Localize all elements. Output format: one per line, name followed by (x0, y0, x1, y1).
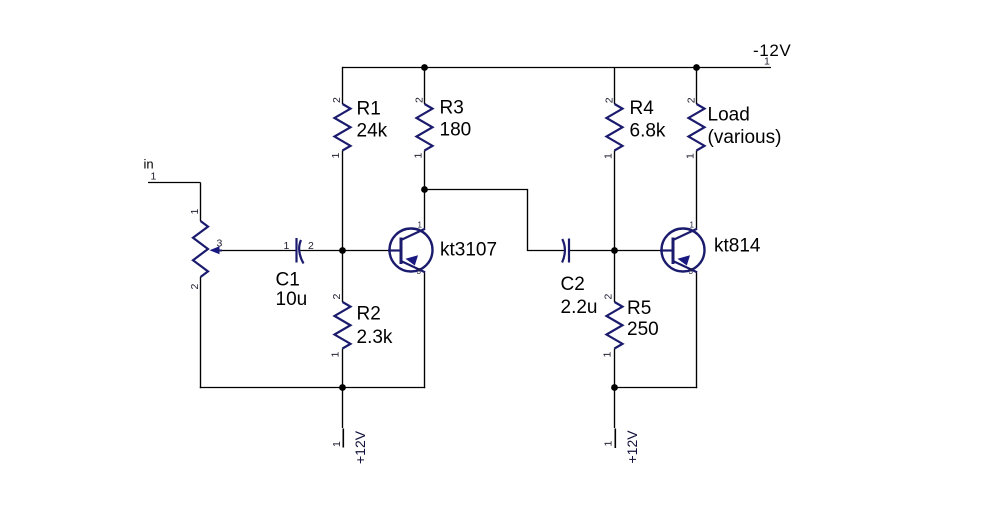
terminal: +12V left (331, 429, 368, 465)
svg-text:+12V: +12V (624, 430, 640, 464)
node: Load top rail junction (693, 64, 700, 71)
wire: R3 bottom to Q1 collector (424, 151, 426, 230)
svg-text:Load: Load (708, 105, 750, 126)
wire: left ground to +12V pin (342, 388, 344, 429)
svg-text:R2: R2 (357, 304, 381, 325)
svg-text:kt814: kt814 (714, 236, 761, 257)
svg-text:1: 1 (685, 153, 697, 159)
svg-text:1: 1 (764, 56, 770, 68)
svg-text:(various): (various) (708, 127, 782, 148)
wire: R1 bottom to R2 top (342, 151, 344, 303)
terminal: +12V right (603, 429, 641, 464)
wire: -12V top rail (343, 67, 772, 69)
node: R3 top rail junction (421, 64, 428, 71)
svg-text:1: 1 (690, 221, 695, 230)
wire: input down to potentiometer (200, 183, 202, 222)
wire: C1 to node A (300, 250, 343, 252)
wire: node A to Q1 base (343, 250, 391, 252)
svg-text:3: 3 (217, 238, 223, 250)
wire: R5 bottom to ground rail (614, 349, 616, 389)
svg-text:3: 3 (417, 267, 422, 276)
svg-text:24k: 24k (357, 121, 388, 142)
svg-text:+12V: +12V (352, 430, 368, 464)
svg-text:C1: C1 (276, 270, 300, 291)
svg-text:R4: R4 (630, 98, 655, 119)
svg-text:2: 2 (604, 97, 616, 103)
svg-text:1: 1 (189, 209, 201, 215)
svg-text:1: 1 (603, 153, 615, 159)
node: Q1 collector / R3 junction (421, 186, 428, 193)
svg-text:2: 2 (331, 97, 343, 103)
wire: Q2 emitter down to ground rail (696, 272, 698, 389)
wire: rail to R3 (424, 68, 426, 105)
svg-text:R3: R3 (440, 98, 464, 119)
svg-text:180: 180 (440, 120, 472, 141)
svg-text:R5: R5 (627, 298, 651, 319)
svg-text:2.3k: 2.3k (357, 327, 393, 348)
svg-text:2.2u: 2.2u (561, 297, 598, 318)
svg-text:1: 1 (151, 171, 157, 183)
capacitor C2 2.2u (polarized) (561, 239, 598, 319)
node B: C2/R4/R5/Q2-base (611, 247, 618, 254)
wire: bottom-left ground rail (200, 387, 425, 389)
wire: bottom-right ground rail (614, 387, 697, 389)
svg-text:1: 1 (331, 441, 343, 447)
wire: rail to R4 (614, 68, 616, 105)
wire: Q1 emitter down to ground rail (424, 272, 426, 389)
wire: Load bottom to Q2 collector (696, 151, 698, 230)
wire: R4 bottom to R5 top (614, 151, 616, 303)
svg-text:2: 2 (308, 240, 314, 252)
capacitor C1 10u (polarized) (276, 238, 315, 310)
wire: right ground to +12V pin (614, 388, 616, 429)
svg-text:2: 2 (331, 294, 343, 300)
wire: C2 to node B (570, 250, 615, 252)
node A: C1/R1/R2/Q1-base (339, 247, 346, 254)
node: right ground junction (611, 384, 618, 391)
resistor R2 (330, 294, 393, 358)
resistor R4 (603, 97, 666, 159)
svg-text:1: 1 (418, 221, 423, 230)
svg-text:2: 2 (414, 97, 426, 103)
transistor Q1 (kt3107) (388, 221, 497, 277)
terminal: in (144, 157, 157, 183)
resistor R5 (602, 294, 659, 358)
svg-text:2: 2 (603, 294, 615, 300)
terminal: -12V (753, 41, 791, 68)
wire: rail corner down to Load (696, 67, 698, 104)
resistor Load (685, 97, 782, 159)
svg-text:3: 3 (689, 267, 694, 276)
svg-text:1: 1 (603, 441, 615, 447)
svg-text:1: 1 (602, 352, 614, 358)
transistor Q2 (kt814) (660, 221, 761, 277)
resistor R3 (413, 97, 472, 159)
wire: potentiometer bottom drop (200, 277, 202, 388)
svg-text:R1: R1 (357, 99, 381, 120)
wire: Q1 collector node over to C2 (425, 190, 566, 251)
svg-text:1: 1 (284, 240, 290, 252)
svg-text:2: 2 (189, 284, 201, 290)
svg-text:kt3107: kt3107 (440, 240, 497, 261)
svg-text:C2: C2 (561, 274, 585, 295)
resistor R1 (330, 97, 388, 159)
svg-text:6.8k: 6.8k (630, 121, 666, 142)
svg-text:2: 2 (686, 97, 698, 103)
wire: input horizontal (148, 182, 201, 184)
wire: R2 bottom to ground rail (342, 349, 344, 389)
svg-text:-12V: -12V (753, 41, 791, 60)
potentiometer P1 (input level) (189, 209, 223, 290)
svg-text:in: in (144, 157, 154, 172)
svg-text:1: 1 (330, 352, 342, 358)
svg-text:10u: 10u (276, 289, 308, 310)
wire: wiper to C1 (218, 250, 297, 252)
node: left ground junction (339, 384, 346, 391)
wire: rail corner down to R1 (342, 67, 344, 104)
svg-text:1: 1 (413, 153, 425, 159)
wire: node B to Q2 base (615, 250, 663, 252)
svg-text:250: 250 (627, 319, 659, 340)
svg-text:1: 1 (330, 153, 342, 159)
